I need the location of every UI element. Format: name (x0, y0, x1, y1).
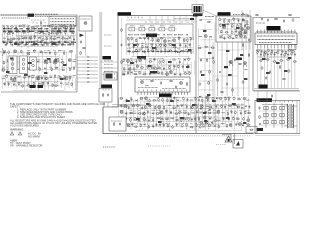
transistor strip411 (205, 121, 208, 124)
resistor tunerTop69 (46, 42, 50, 43)
resistor mainM217 (154, 66, 158, 69)
resistor tunerMid115 (68, 67, 72, 71)
wire footer note line 2 (10, 141, 31, 145)
capacitor mainB337 (147, 117, 151, 122)
resistor mainU191 (177, 49, 181, 53)
transistor Q103 large (12, 78, 16, 82)
coil can L102 (20, 56, 28, 74)
transistor tunerTop63 (25, 41, 28, 45)
wire tunerMid horizontal nets (3, 52, 72, 69)
resistor mainB245 (139, 98, 143, 100)
diode mainB298 (241, 104, 245, 108)
svg-text:THE COMPONENTS IDENTIFIED BY S: THE COMPONENTS IDENTIFIED BY SHADING AND… (10, 102, 105, 106)
audio speck text (256, 50, 294, 57)
resistor tunerMid108 (27, 67, 31, 70)
wire degauss link lines (112, 105, 140, 107)
resistor mainU164 (189, 37, 191, 41)
resistor mainU189 (168, 49, 172, 52)
transistor mainM199 (139, 59, 142, 62)
wire sub vertical nets (218, 19, 247, 38)
capacitor mainU154 (147, 37, 150, 41)
diode mainB244 (136, 100, 138, 102)
diode mainB351 (209, 117, 212, 120)
resistor mainU157 (159, 38, 163, 39)
resistor mainM239 (183, 72, 187, 74)
diode tunerTop73 (61, 41, 65, 45)
capacitor mainB363 (131, 123, 134, 127)
capacitor mainB284 (177, 104, 179, 108)
transistor T2 (241, 28, 244, 31)
inductor tunerTop25 (23, 32, 26, 35)
resistor mainB329 (244, 110, 247, 114)
resistor mainB345 (183, 118, 187, 120)
resistor strip392 (207, 21, 211, 22)
resistor mainU174 (168, 44, 172, 46)
IF module labels (130, 25, 175, 27)
node warning symbols row (10, 132, 41, 139)
capacitor mainB380 (202, 124, 205, 128)
resistor mainU171 (155, 44, 157, 49)
transistor mainB306 (142, 112, 145, 115)
diode strip395 (210, 36, 212, 38)
capacitor mainU190 (174, 49, 177, 53)
resistor tunerTop50 (50, 36, 51, 40)
transistor mainB310 (160, 111, 163, 114)
resistor mainB281 (163, 106, 164, 110)
capacitor tunerBot135 (7, 82, 10, 86)
capacitor strip412 (211, 121, 213, 125)
transistor mainB280 (158, 105, 161, 108)
resistor tunerMid100 (61, 60, 65, 64)
inductor mainB342 (171, 118, 175, 120)
resistor mainB334 (134, 117, 138, 120)
diode strip408 (200, 108, 202, 110)
resistor tunerTop61 (17, 41, 21, 45)
node sub junction dots (221, 18, 237, 36)
transistor mainB289 (200, 104, 203, 108)
inductor tunerBot133 (73, 74, 76, 77)
diode tunerTop11 (43, 25, 46, 27)
inductor mainB322 (213, 110, 216, 113)
wire power supply nets (259, 103, 286, 128)
node scattered part labels (6, 24, 291, 124)
capacitor mainB271 (120, 104, 123, 108)
resistor sub422 (231, 24, 235, 28)
resistor tunerTop7 (27, 25, 31, 30)
diode tunerMid96 (37, 60, 41, 63)
resistor mainM210 (124, 67, 125, 71)
node main mid label band (128, 51, 190, 53)
capacitor tunerTop76 (72, 41, 75, 45)
resistor mainB383 (217, 124, 221, 129)
capacitor mainB267 (233, 97, 235, 101)
capacitor tunerTop34 (59, 31, 62, 35)
transistor mainU173 (163, 44, 166, 47)
inductor mainU152 (139, 37, 142, 39)
resistor mainB344 (180, 118, 183, 123)
fuse F801 symbol (250, 129, 254, 130)
transistor tunerMid79 (14, 50, 17, 53)
capacitor mainM232 (153, 71, 156, 75)
capacitor mainU178 (188, 43, 191, 47)
resistor mainM213 (136, 64, 140, 68)
transistor mainM196 (127, 59, 130, 63)
relay RL101 (104, 72, 117, 80)
transistor mainM211 (128, 66, 131, 71)
capacitor mainB361 (124, 123, 127, 127)
resistor tunerTop1 (2, 25, 5, 29)
transistor Q302 tree (243, 62, 247, 68)
resistor tunerTop51 (52, 37, 56, 40)
resistor mainB264 (219, 98, 223, 99)
inductor tunerBot141 (38, 83, 42, 84)
wire notes line 2 (10, 104, 21, 108)
capacitor mainB371 (162, 123, 166, 127)
transistor mainM236 (169, 71, 172, 74)
capacitor mainB360 (120, 123, 123, 127)
inductor mainB304 (133, 111, 137, 114)
resistor mainB325 (226, 111, 228, 116)
inductor mainB353 (218, 119, 221, 122)
resistor sub424 (239, 24, 242, 28)
resistor mainB341 (165, 117, 169, 120)
resistor tunerTop72 (58, 41, 61, 45)
diode mainB263 (216, 97, 218, 99)
capacitor mainB311 (165, 110, 168, 114)
IC601 pin stubs (258, 30, 295, 49)
wire mainM vertical nets (123, 58, 195, 76)
resistor tunerMid82 (33, 49, 37, 53)
transistor mainB301 (120, 111, 124, 114)
capacitor mainB326 (230, 110, 233, 114)
capacitor mainB256 (186, 98, 188, 102)
transistor mainU160 (173, 38, 176, 42)
wire IC601 output nets (258, 48, 295, 88)
capacitor mainU193 (185, 49, 187, 53)
wire notes para line 1 (10, 119, 96, 123)
capacitor mainB376 (185, 123, 188, 127)
resistor tunerTop14 (56, 26, 57, 30)
resistor mainB275 (136, 105, 140, 107)
resistor mainB377 (190, 124, 194, 128)
inductor sub420 (223, 24, 226, 27)
resistor tunerMid86 (54, 51, 56, 56)
capacitor tunerMid95 (30, 59, 33, 63)
wire main vertical bus (100, 12, 102, 88)
resistor mainM222 (178, 64, 179, 68)
capacitor tunerTop67 (40, 40, 43, 44)
resistor mainM240 (188, 71, 191, 75)
capacitor mainU181 (135, 49, 138, 53)
capacitor mainU177 (184, 44, 187, 48)
capacitor mainM209 (187, 57, 191, 61)
audio mid parts (261, 65, 290, 80)
IC601 internal text (257, 36, 295, 43)
capacitor mainB293 (220, 104, 223, 108)
IF module inner box (126, 24, 193, 46)
node IC202 part number label (159, 94, 172, 97)
resistor tunerTop18 (70, 24, 71, 28)
resistor sub432 (219, 36, 223, 38)
diode strip406 (199, 96, 201, 98)
resistor strip397 (204, 46, 208, 47)
inductor mainB290 (206, 105, 209, 107)
inductor tunerMid94 (24, 60, 27, 62)
resistor mainB297 (236, 104, 240, 107)
IC601 pin numbers (256, 31, 296, 33)
power supply diode-cap grid (264, 106, 284, 123)
transistor mainU156 (157, 38, 160, 42)
transistor mainB388 (238, 123, 241, 126)
capacitor mainM238 (179, 73, 181, 77)
tuner header text row 1 (2, 17, 30, 19)
resistor mainB295 (228, 105, 232, 107)
wire strip horizontal nets (198, 19, 215, 124)
diode tunerBot131 (63, 76, 67, 80)
IC601 body (255, 33, 297, 45)
main board bottom-left extension (103, 107, 254, 134)
tuner pin-label table text row 1 (51, 18, 75, 20)
transistor Q304 (238, 31, 242, 35)
capacitor mainB379 (199, 124, 203, 129)
transistor strip394 (204, 35, 207, 38)
resistor tunerMid109 (33, 67, 34, 71)
capacitor tunerMid85 (48, 50, 51, 55)
power box pin ticks (259, 101, 293, 103)
wire degauss drop (104, 102, 108, 107)
resistor mainB268 (237, 98, 241, 100)
resistor mainB343 (175, 117, 179, 121)
capacitor tunerTop48 (42, 37, 45, 42)
resistor mainB314 (178, 111, 182, 114)
transistor mainB359 (247, 117, 250, 122)
capacitor sub428 (231, 30, 233, 34)
capacitor sub430 (239, 30, 243, 35)
resistor mainB385 (226, 124, 227, 128)
resistor tunerTop16 (62, 25, 66, 27)
resistor tunerTop75 (68, 41, 72, 45)
resistor mainU175 (173, 46, 177, 47)
resistor mainU151 (136, 38, 137, 42)
power supply box outline (255, 101, 300, 134)
diode tunerTop19 (73, 25, 77, 27)
capacitor tunerTop4 (14, 25, 17, 29)
capacitor mainB369 (155, 123, 158, 127)
capacitor tunerTop10 (40, 26, 43, 31)
transistor sub431 (244, 30, 248, 34)
resistor mainM218 (157, 66, 161, 69)
capacitor mainM204 (162, 59, 165, 64)
inductor tunerBot147 (65, 83, 69, 85)
inductor mainB257 (190, 99, 193, 102)
capacitor mainM224 (187, 64, 189, 68)
resistor sub438 (243, 36, 247, 38)
resistor mainB381 (208, 124, 212, 126)
capacitor mainB328 (239, 111, 242, 116)
node mainM junction dots (131, 59, 183, 74)
resistor tunerTop65 (32, 41, 36, 45)
resistor mainU184 (147, 49, 150, 53)
diode tunerMid111 (44, 67, 46, 69)
node strip junction dots (199, 45, 208, 122)
resistor tunerTop40 (9, 39, 13, 40)
resistor sub427 (225, 32, 229, 33)
capacitor mainM202 (153, 58, 157, 62)
capacitor mainU183 (144, 50, 146, 54)
capacitor mainB312 (170, 111, 173, 115)
resistor tunerMid80 (21, 50, 22, 54)
capacitor tunerBot134 (3, 82, 6, 86)
resistor mainB390 (246, 124, 250, 125)
transistor tunerTop33 (56, 30, 60, 34)
tuner pin-label table (49, 17, 76, 27)
resistor strip396 (198, 47, 202, 48)
capacitor mainB262 (212, 97, 214, 101)
transistor mainU158 (163, 37, 166, 42)
node subdrop dark text (224, 58, 242, 69)
resistor tunerTop42 (17, 37, 21, 40)
diode mainB355 (227, 117, 229, 120)
node connector CN1 dark hatch (194, 6, 202, 12)
node power bottom-left mark (257, 128, 264, 131)
node mainU junction dots (138, 38, 185, 57)
capacitor mainU187 (159, 49, 162, 53)
inductor tunerMid102 (73, 59, 77, 62)
capacitor tunerTop60 (14, 41, 16, 45)
diode tunerTop47 (38, 37, 42, 39)
resistor sub426 (221, 30, 222, 34)
transistor mainB278 (148, 104, 151, 107)
capacitor tunerMid107 (22, 66, 24, 70)
inductor mainU192 (181, 49, 184, 52)
node main top-right parts label (190, 14, 198, 20)
wire harness signal labels (104, 61, 113, 79)
resistor mainB313 (174, 111, 178, 115)
resistor mainB336 (142, 118, 146, 121)
resistor mainB357 (236, 117, 240, 119)
capacitor mainB247 (149, 99, 151, 103)
resistor tunerBot140 (33, 82, 34, 86)
main left margin parts (121, 28, 125, 76)
audio block outline (253, 18, 300, 92)
node tunerBot junction dots (27, 75, 76, 90)
tuner pin-label table text row 2 (51, 21, 75, 23)
resistor mainU179 (127, 49, 131, 52)
resistor tunerTop36 (69, 29, 70, 33)
resistor sub418 (242, 19, 246, 21)
sub board outline (216, 16, 251, 42)
resistor mainU185 (150, 49, 154, 52)
capacitor mainB249 (157, 98, 160, 102)
inductor tunerBot121 (17, 75, 20, 78)
transistor Q105 large (53, 60, 57, 64)
node harness label AGC (101, 85, 112, 88)
capacitor mainB261 (207, 98, 209, 102)
resistor tunerMid116 (73, 66, 74, 70)
wire right block bus lines (254, 89, 299, 91)
resistor tunerBot132 (69, 76, 72, 80)
resistor mainB266 (227, 97, 231, 101)
capacitor tunerMid77 (3, 50, 6, 54)
wire tunerMid vertical nets (3, 50, 76, 75)
diode mainM208 (183, 59, 186, 61)
transistor sub437 (239, 35, 243, 38)
capacitor mainB316 (188, 112, 190, 116)
capacitor tunerMid78 (8, 50, 10, 54)
transistor Q104 large (36, 76, 40, 80)
node SUB BOARD title (218, 12, 231, 15)
capacitor sub423 (236, 24, 239, 28)
resistor tunerMid98 (49, 59, 51, 63)
node tunerTop junction dots (2, 25, 74, 48)
resistor tunerTop21 (7, 31, 11, 35)
resistor tunerTop70 (50, 41, 54, 43)
svg-text:WARNING: WARNING (10, 127, 23, 131)
audio top edge parts (267, 18, 296, 49)
resistor mainM220 (168, 66, 172, 70)
capacitor mainB273 (128, 106, 130, 110)
capacitor tunerTop20 (3, 30, 6, 34)
diode mainB389 (241, 124, 244, 127)
capacitor mainM221 (173, 65, 176, 69)
capacitor mainB338 (152, 118, 155, 122)
node dark label pair bottom (30, 85, 44, 88)
capacitor mainB327 (234, 111, 236, 115)
capacitor strip403 (208, 70, 210, 74)
resistor mainB330 (247, 111, 251, 114)
capacitor tunerBot138 (21, 83, 25, 88)
transistor tunerBot127 (45, 76, 48, 80)
wire subdrop cross ties (213, 50, 249, 88)
resistor tunerMid83 (39, 51, 43, 53)
resistor mainB331 (119, 117, 123, 120)
capacitor tunerTop6 (22, 24, 25, 28)
node main mid dark text 2 (150, 71, 157, 73)
resistor mainM214 (140, 67, 144, 68)
resistor tunerTop64 (29, 41, 33, 42)
transistor tunerTop23 (16, 30, 19, 33)
inductor tunerTop27 (31, 30, 35, 32)
resistor mainU170 (150, 43, 153, 47)
inductor T1 (245, 23, 248, 26)
resistor strip398 (211, 47, 215, 48)
transistor tunerMid101 (68, 59, 71, 62)
capacitor mainM225 (123, 72, 126, 76)
resistor tunerTop8 (31, 27, 35, 28)
inductor mainB324 (222, 111, 225, 114)
inductor mainB384 (221, 122, 224, 125)
resistor mainU169 (145, 44, 149, 47)
node safety triangle symbol (225, 136, 232, 142)
resistor tunerBot142 (42, 81, 46, 85)
inductor mainB319 (199, 111, 202, 114)
diode tunerTop43 (21, 36, 24, 39)
resistor sub415 (229, 19, 230, 23)
capacitor mainB335 (137, 117, 140, 122)
wire strip vertical nets (199, 23, 215, 125)
wire main left margin net (121, 18, 123, 100)
diode sub421 (226, 23, 230, 25)
resistor tunerTop62 (21, 41, 22, 45)
resistor tunerMid90 (3, 61, 4, 65)
diode mainB294 (224, 104, 228, 107)
resistor mainU161 (178, 36, 181, 40)
wire tunerTop vertical nets (3, 25, 74, 48)
resistor mainB241 (119, 98, 123, 99)
resistor tunerBot148 (71, 82, 72, 86)
resistor mainB378 (195, 123, 198, 127)
node speaker label (259, 85, 268, 89)
